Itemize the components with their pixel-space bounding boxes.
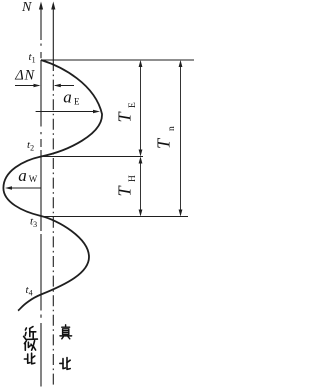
dimension arrow a_W (points left to curve west extreme) <box>8 187 41 189</box>
svg-text:a: a <box>18 166 27 185</box>
arrowhead of right axis <box>51 2 55 10</box>
dimension line T_E (from t1 line to t2 line) <box>140 62 142 156</box>
dimension line T_n (from t1 line to t3 line) <box>180 62 182 216</box>
chinese label: jin (near) of jin-si-bei <box>24 327 38 340</box>
chinese label: si (like) of jin-si-bei <box>24 341 35 351</box>
label T_n (rotated) <box>154 126 178 149</box>
wire: t2 horizontal reference line <box>41 156 143 158</box>
wire: true-north axis dash-dot below t1 <box>52 60 54 386</box>
arrowhead of left axis <box>39 2 43 10</box>
label T_H (rotated) <box>115 175 139 197</box>
wire: t3 horizontal reference line <box>41 216 188 218</box>
svg-text:E: E <box>128 102 138 108</box>
gyrocompass settling curve <box>3 60 102 311</box>
svg-text:H: H <box>128 175 138 182</box>
svg-text:n: n <box>167 126 177 131</box>
wire: true-north axis (right vertical line), solid above t1 <box>52 4 54 60</box>
chinese label: zhen (true) of zhen-bei <box>60 325 72 339</box>
label T_E (rotated) <box>115 102 139 123</box>
dimension arrow Delta-N left (points right to left axis) <box>15 85 39 87</box>
svg-text:a: a <box>63 88 71 107</box>
chinese label: bei (north) of jin-si-bei <box>24 353 34 364</box>
dimension arrow Delta-N right (points left to true-north axis) <box>55 85 74 87</box>
dimension line T_H (from t2 line to t3 line) <box>140 158 142 215</box>
svg-text:W: W <box>29 174 38 184</box>
svg-text:ΔN: ΔN <box>14 68 35 84</box>
svg-text:E: E <box>74 96 80 106</box>
wire: t1 horizontal reference line <box>41 59 194 61</box>
svg-text:N: N <box>21 0 32 15</box>
wire: approximate-north axis (left vertical line) <box>40 4 42 387</box>
chinese label: bei (north) of zhen-bei <box>60 358 70 370</box>
dimension arrow a_E (points right to curve east extreme) <box>36 111 97 113</box>
